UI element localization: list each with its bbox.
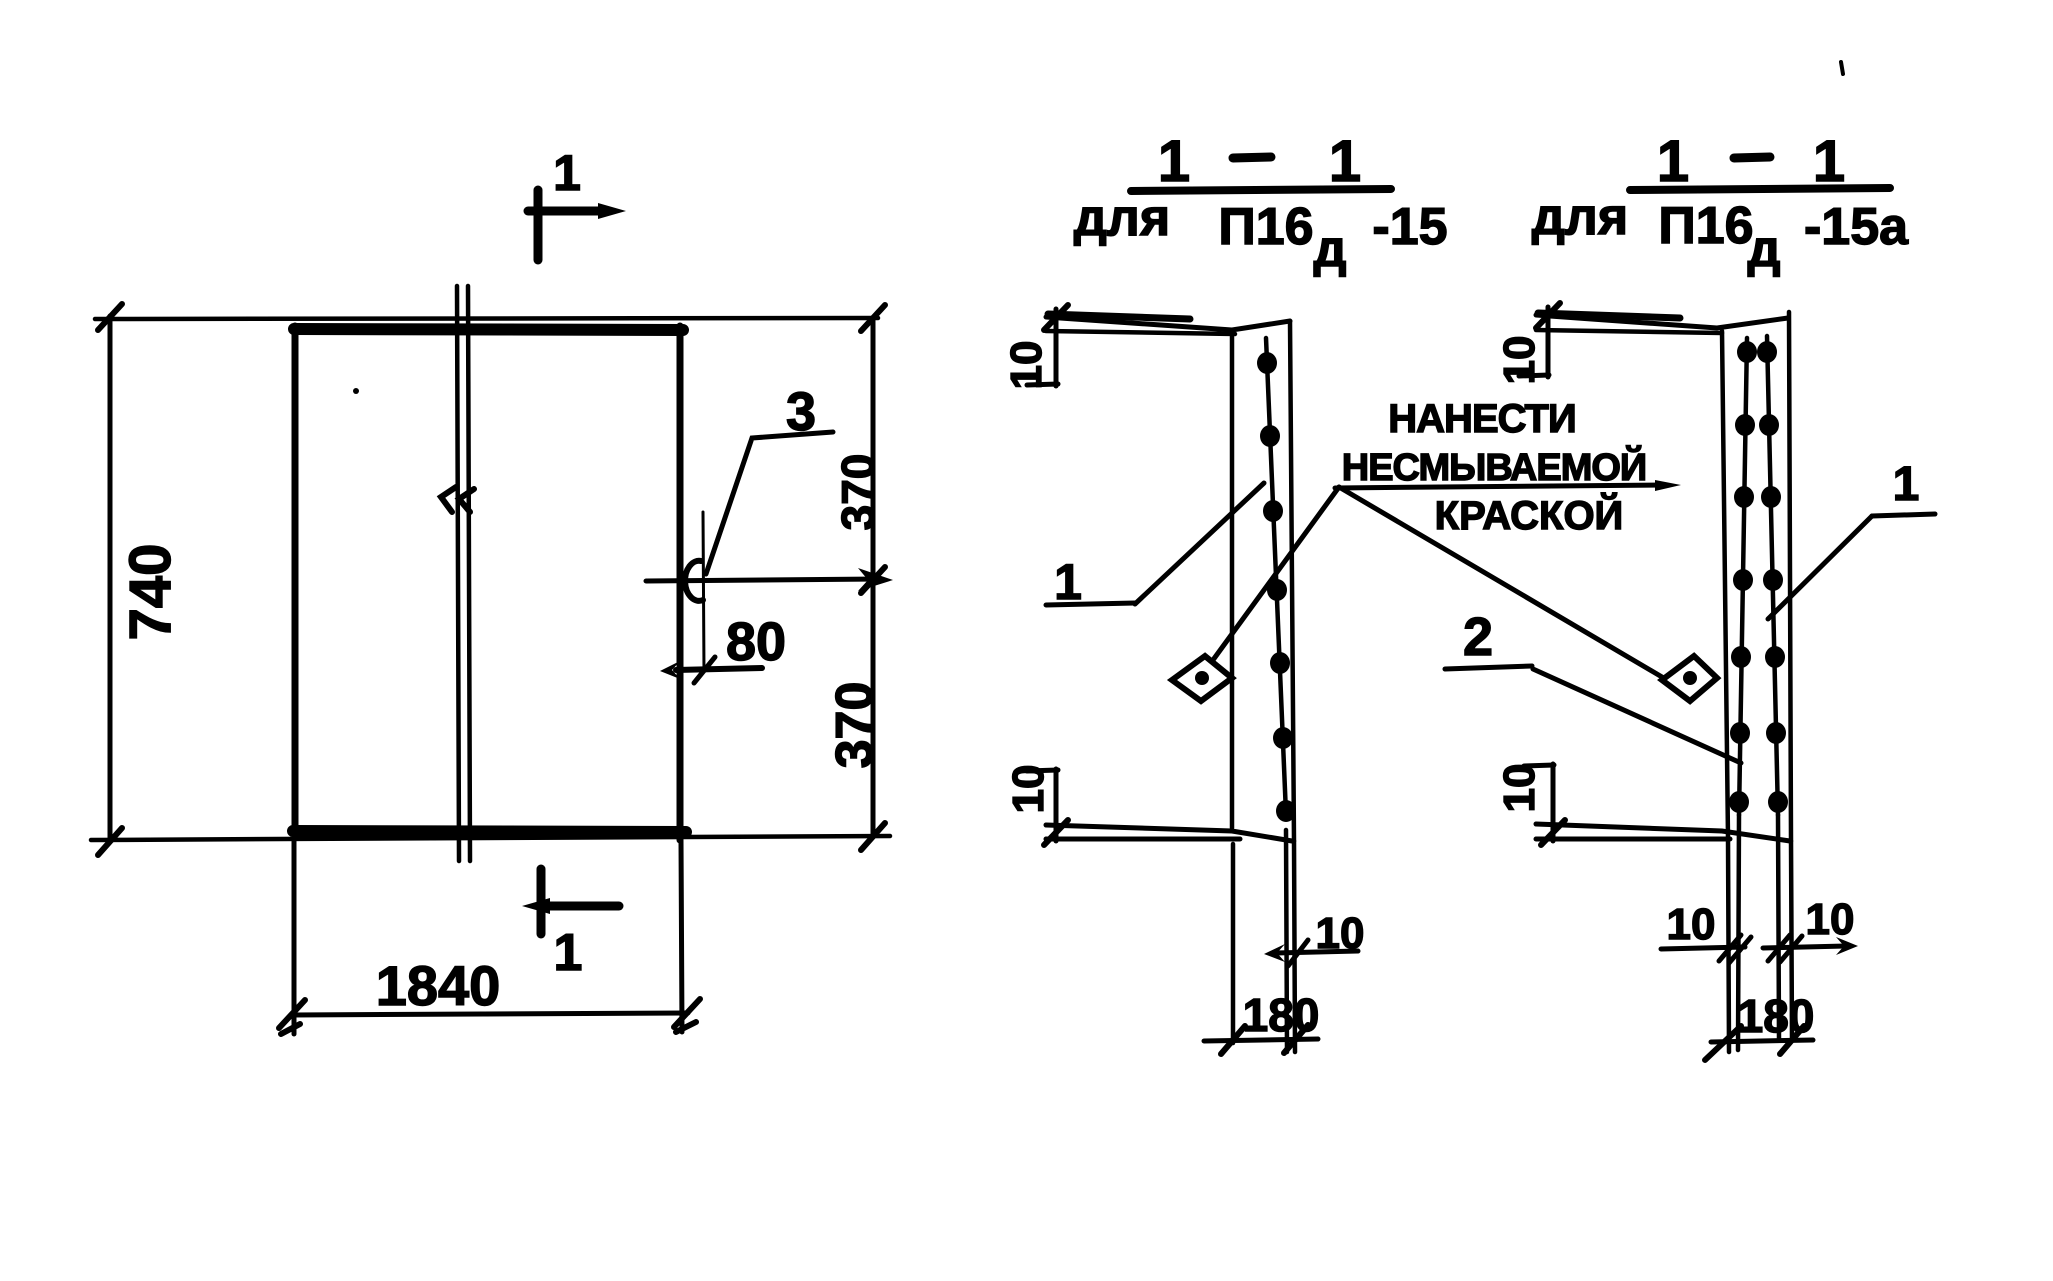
svg-text:НАНЕСТИ: НАНЕСТИ (1388, 397, 1575, 441)
left edge extension down (292, 840, 297, 1034)
view1 top bar upper overdraw (1048, 314, 1190, 319)
view1 tick 10 top-left vertical (1054, 309, 1059, 386)
view2 dim 180 right slash (1780, 1026, 1804, 1054)
title2 fraction bar (1630, 188, 1890, 190)
svg-text:1840: 1840 (376, 954, 501, 1017)
view1 dim 10 slash (1288, 940, 1308, 966)
view2 bottom bar upper line (1536, 824, 1790, 841)
right dim line vertical (871, 318, 876, 837)
svg-text:для: для (1074, 189, 1170, 247)
svg-text:П16: П16 (1218, 198, 1313, 256)
svg-text:2: 2 (1463, 607, 1493, 667)
section mark bottom: vertical stroke (537, 869, 546, 934)
title1 dash (1233, 157, 1271, 158)
scan speck left (353, 388, 359, 394)
view2 tick 10 bottom-left vertical (1551, 764, 1556, 841)
view2 top bar upper line (1536, 315, 1788, 328)
view2 rebar line right (1767, 336, 1778, 815)
view2 rebar dots left column (1729, 341, 1757, 813)
svg-text:1: 1 (553, 145, 581, 201)
dim line 1840 (292, 1013, 688, 1015)
svg-text:740: 740 (118, 544, 183, 641)
paint note leader to diamond1 (1213, 487, 1339, 660)
view2 top bar upper overdraw (1538, 313, 1680, 318)
view2 rib left line (1722, 331, 1728, 838)
label 2 underline (1445, 666, 1532, 669)
svg-text:80: 80 (726, 612, 786, 672)
rectangle right edge (677, 326, 684, 840)
svg-text:1: 1 (1813, 129, 1845, 194)
dim 1840 right slash arrow (674, 999, 700, 1032)
scan speck top right (1841, 62, 1843, 74)
view2 diamond mark (1662, 656, 1717, 701)
svg-text:1: 1 (1657, 129, 1689, 194)
svg-text:10: 10 (1002, 341, 1051, 390)
view1 dim 10 arrowhead (1264, 944, 1285, 962)
view2 tick 10 bottom-left slash (1541, 820, 1565, 845)
view2 tick 10 bottom-left foot (1524, 765, 1554, 766)
view2 extension rib-left below (1728, 838, 1729, 1052)
view1 rib right line (1290, 321, 1294, 841)
title2 dash (1734, 157, 1770, 158)
section cut line a (457, 286, 459, 861)
svg-text:-15а: -15а (1804, 198, 1909, 256)
view1 label 1 leader (1135, 483, 1264, 604)
view2 extension rib-right below (1791, 841, 1792, 1040)
top extension line (95, 318, 878, 319)
view1 dim 180 right slash (1284, 1025, 1308, 1053)
view1 rib left line (1230, 332, 1235, 828)
paint note leader to diamond2 (1339, 487, 1662, 677)
370 split line arrowhead (858, 568, 893, 591)
svg-text:10: 10 (1667, 900, 1716, 949)
view2 label 1 leader (1768, 516, 1872, 619)
view1 bottom bar lower line (1046, 837, 1240, 842)
svg-text:3: 3 (786, 382, 816, 442)
view1 extension rebar below (1286, 830, 1287, 1052)
svg-text:370: 370 (826, 682, 884, 769)
view2 dim 10 bottom-right arrowhead (1836, 937, 1858, 955)
svg-text:10: 10 (1316, 909, 1365, 958)
view1 tick 10 bottom-left vertical (1054, 769, 1059, 841)
svg-text:10: 10 (1495, 336, 1544, 385)
svg-text:10: 10 (1495, 764, 1544, 813)
svg-text:д: д (1313, 220, 1346, 278)
view2 dim 10 bottom-left line (1661, 947, 1745, 949)
view2 top bar lower line (1536, 330, 1722, 333)
svg-text:1: 1 (1329, 129, 1361, 194)
bottom extension line (91, 836, 890, 840)
svg-text:П16: П16 (1658, 197, 1753, 255)
right edge extension down (681, 840, 682, 1032)
view2 diamond dot (1683, 671, 1697, 685)
view1 rebar line with dots (1266, 338, 1286, 814)
view2 dim 10 bottom-left slashes (1719, 935, 1751, 963)
view1 dim 180 line (1204, 1039, 1318, 1041)
hole circle (D shape) (685, 561, 703, 601)
view2 bottom bar lower line (1536, 837, 1730, 842)
view1 tick 10 top-left slash (1044, 305, 1068, 330)
svg-text:НЕСМЫВАЕМОЙ: НЕСМЫВАЕМОЙ (1342, 444, 1646, 489)
dim 80 slash (694, 657, 715, 683)
svg-text:КРАСКОЙ: КРАСКОЙ (1435, 492, 1624, 538)
view1 diamond mark (1172, 656, 1232, 701)
370 split line (646, 579, 880, 581)
view2 tick 10 top-left vertical (1546, 307, 1551, 377)
view1 top bar lower line (1046, 331, 1235, 334)
svg-text:1: 1 (1054, 554, 1082, 610)
section mark top: vertical stroke (534, 190, 543, 260)
view1 dim 10 bottom line (1276, 951, 1358, 953)
svg-text:д: д (1747, 220, 1780, 278)
svg-text:1: 1 (1893, 458, 1920, 511)
svg-text:-15: -15 (1372, 198, 1447, 256)
paint note underline (1335, 485, 1665, 488)
view2 rib right line (1789, 312, 1791, 841)
view1 extension right below (1294, 841, 1295, 1052)
rectangle top edge (thick) (294, 329, 683, 330)
view2 dim 180 line (1711, 1040, 1813, 1042)
svg-text:370: 370 (832, 454, 884, 531)
view1 tick 10 bottom-left slash (1044, 820, 1068, 845)
hole vertical line (703, 512, 704, 672)
title1 fraction bar (1131, 189, 1391, 191)
leader 3 line (706, 432, 833, 574)
view1 top bar upper line (1046, 317, 1290, 330)
section mark bottom: arrow shaft pointing left (548, 902, 619, 911)
svg-text:10: 10 (1806, 895, 1855, 944)
view2 tick 10 top-left foot (1519, 375, 1549, 376)
view1 dim 180 left slash (1221, 1026, 1245, 1054)
view2 label 1 underline (1872, 514, 1935, 516)
svg-text:10: 10 (1004, 765, 1053, 814)
svg-text:180: 180 (1738, 990, 1815, 1042)
right dim middle slash arrow (861, 567, 885, 593)
view2 rebar dots right column (1757, 341, 1788, 813)
dim line 740 vertical (108, 316, 113, 841)
svg-text:1: 1 (554, 924, 583, 982)
view2 extension rebar-left below (1738, 815, 1739, 1050)
section cut line b (468, 286, 470, 861)
view1 diamond dot (1195, 671, 1209, 685)
view2 extension rebar-right below (1778, 815, 1779, 1040)
view1 tick 10 top-left foot (1027, 384, 1058, 385)
svg-text:1: 1 (1158, 129, 1190, 194)
view1 rebar dots (1257, 352, 1296, 822)
section mark top: arrow shaft pointing right (528, 207, 600, 216)
rectangle bottom edge (thick) (293, 831, 686, 832)
view2 dim 180 left slash (1705, 1026, 1741, 1060)
dim 740 top slash arrow (98, 304, 122, 330)
view2 tick 10 top-left slash (1536, 303, 1560, 328)
dim 80 arrow line (676, 668, 762, 670)
right dim top slash arrow (861, 305, 885, 331)
dim 1840 left slash arrow (279, 1000, 305, 1034)
right dim bottom slash arrow (861, 823, 885, 850)
section mark bottom: arrowhead (522, 898, 550, 914)
label 2 leader (1533, 669, 1741, 763)
rectangle left edge (292, 326, 299, 836)
view1 extension left below (1231, 844, 1236, 1043)
dim 80 arrowhead (660, 661, 680, 679)
view1 tick 10 bottom-left foot (1027, 770, 1058, 771)
view2 dim 10 bottom-right line (1763, 946, 1846, 948)
svg-text:для: для (1532, 188, 1628, 246)
svg-text:180: 180 (1243, 989, 1320, 1041)
view2 rebar line left (1739, 338, 1747, 815)
cut line tick marks (441, 487, 456, 512)
view1 bottom bar upper line (1046, 825, 1292, 841)
view2 dim 10 bottom-right slashes (1768, 935, 1802, 962)
dim 740 bottom slash arrow (98, 828, 122, 855)
section mark top: arrowhead (598, 203, 626, 219)
view1 label 1 underline (1046, 603, 1135, 605)
